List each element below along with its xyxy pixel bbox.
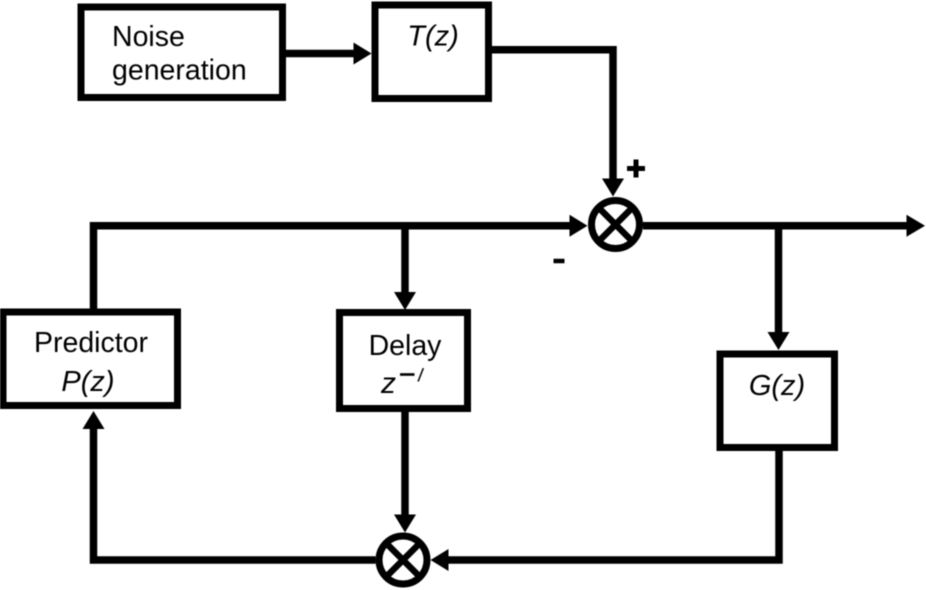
label - (minus input of summing junction) bbox=[554, 259, 565, 264]
block T(z) bbox=[375, 5, 489, 99]
svg-text:G(z): G(z) bbox=[749, 370, 805, 402]
wire: branch down to G(z) box with arrowhead bbox=[768, 226, 790, 350]
wire: T(z) -> summing junction (elbow down) with arrowhead bbox=[491, 50, 624, 197]
svg-text:l: l bbox=[416, 365, 425, 386]
wire: multiplier left and up to Predictor with arrowhead bbox=[83, 411, 376, 560]
svg-text:z: z bbox=[380, 367, 396, 400]
multiplier (circle with X) bbox=[379, 536, 427, 584]
summing junction (circle with X) bbox=[592, 201, 640, 249]
wire: Noise generation -> T(z) with arrowhead bbox=[285, 43, 372, 65]
block Delay z^-l bbox=[340, 313, 468, 409]
wire: G(z) down and left to multiplier with arrowhead bbox=[431, 447, 780, 571]
svg-text:Delay: Delay bbox=[369, 330, 443, 362]
svg-text:Predictor: Predictor bbox=[34, 327, 149, 359]
label + (plus input of summing junction) bbox=[627, 160, 645, 178]
svg-text:T(z): T(z) bbox=[407, 21, 459, 53]
svg-text:P(z): P(z) bbox=[61, 366, 114, 398]
wire: branch down to Delay box with arrowhead bbox=[394, 226, 416, 310]
wire: Delay down to multiplier with arrowhead bbox=[394, 408, 416, 533]
block Predictor P(z) bbox=[3, 312, 178, 406]
block "Noise generation" bbox=[81, 7, 283, 98]
svg-text:generation: generation bbox=[112, 55, 247, 87]
wire: main feedback line from node A (left elbow above Predictor) -> summing junction, with arrowhead bbox=[94, 215, 588, 309]
svg-text:Noise: Noise bbox=[112, 21, 185, 53]
block G(z) bbox=[720, 354, 835, 448]
wire: summing junction -> output (right arrow) bbox=[643, 215, 925, 237]
